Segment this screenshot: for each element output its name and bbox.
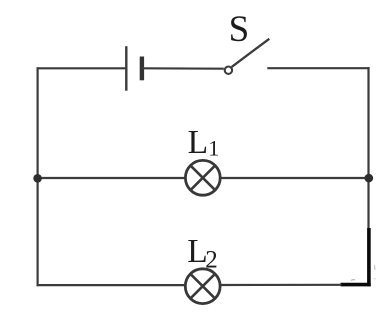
wire switch to top-right corner [267, 67, 369, 69]
lamp L1 circle [185, 160, 220, 195]
lamp L2 cross [191, 275, 214, 298]
wire top-left horizontal (battery left lead) [37, 67, 127, 69]
wire battery to switch [142, 67, 224, 70]
svg-text:S: S [229, 9, 250, 50]
wire middle branch right (lamp L1 to right rail) [221, 177, 368, 179]
wire right vertical upper [367, 67, 369, 229]
svg-text:2: 2 [205, 246, 218, 273]
junction node right [365, 174, 374, 183]
junction node left [33, 174, 42, 183]
battery B1 long plate (+) [125, 46, 127, 90]
svg-text:L: L [188, 124, 208, 161]
svg-text:1: 1 [208, 136, 219, 161]
wire left vertical [36, 67, 38, 286]
wire bottom-right horizontal (heavy) [341, 283, 371, 287]
wire bottom branch right (lamp L2 to heavy corner) [221, 284, 342, 286]
wire middle branch left (to lamp L1) [38, 177, 185, 179]
wire right vertical lower (heavy) [367, 228, 371, 286]
scan artifact right of corner [374, 265, 376, 279]
lamp L2 circle [185, 269, 220, 304]
lamp L1 cross [191, 166, 214, 189]
battery B1 short plate (-) [140, 57, 144, 81]
switch S blade (open) [232, 39, 270, 67]
wire bottom branch left (to lamp L2) [37, 284, 184, 286]
switch S pivot circle [225, 67, 232, 74]
scan artifact near corner [351, 279, 355, 282]
